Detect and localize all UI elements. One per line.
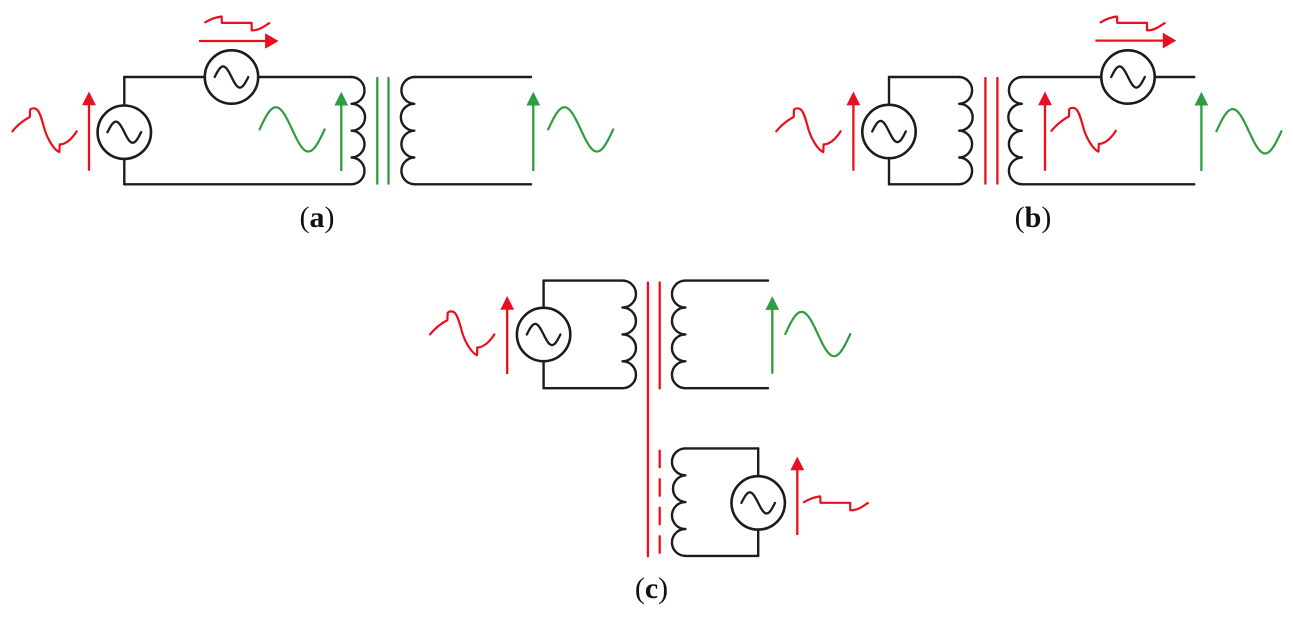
green voltage arrow at load [1195,92,1209,171]
wire secondary bottom [1022,183,1195,185]
wire top right segment to primary [258,76,351,78]
circuit (c) red distorted voltage waveform at source [430,311,494,355]
wire U6 bottom lead [757,530,759,556]
green sinusoidal waveform at primary [260,107,325,151]
transformer core line 1 (red) [984,78,986,184]
secondary winding L2 [401,77,414,184]
harmonic source U6 [732,476,785,529]
wire tertiary bottom [685,555,758,557]
wire tertiary top [685,447,758,449]
wire secondary bottom [414,183,531,185]
secondary winding L4 [1008,77,1021,184]
circuit (c) red voltage arrow at source [500,296,514,374]
svg-text:(c): (c) [635,572,668,605]
wire U5 top lead [542,281,544,308]
red distorted current waveform at tertiary [804,496,868,510]
wire U5 bottom lead [542,361,544,388]
wire U1 top lead [123,77,125,106]
primary winding L5 [623,281,636,389]
transformer core line 2 (green) [387,78,389,184]
voltage source U1 [98,106,151,159]
wire U1 bottom lead [123,159,125,184]
red current direction arrow I2 [1095,33,1176,49]
wire secondary top right segment [1155,76,1195,78]
wire U6 top lead [757,448,759,476]
wire bottom of primary loop [124,183,351,185]
primary winding L1 [352,77,365,184]
circuit (a) red voltage arrow V1 [82,92,96,171]
svg-text:(b): (b) [1015,201,1052,234]
primary winding L3 [959,77,972,184]
svg-text:(a): (a) [300,201,335,234]
red distorted waveform at secondary [1052,108,1116,152]
circuit (b) red voltage arrow at source [847,92,861,171]
harmonic source U4 [1101,50,1154,103]
wire secondary top left segment [1022,76,1102,78]
wire secondary top [685,279,768,281]
dashed red core line at tertiary [659,451,661,553]
transformer core line 1 (green) [376,78,378,184]
circuit (b) red distorted voltage waveform at source [776,108,840,152]
wire U3 bottom lead [888,158,890,184]
wire secondary bottom [685,387,768,389]
wire secondary top [414,76,531,78]
green sinusoidal waveform at secondary [785,312,850,356]
secondary winding L6 [672,281,685,389]
voltage source U5 [517,308,570,361]
harmonic source U2 [205,50,258,103]
voltage source U3 [862,105,915,158]
wire primary loop bottom [889,183,959,185]
wire primary loop bottom [544,387,623,389]
red distorted current waveform above U4 [1101,17,1165,31]
tertiary winding L7 [672,448,685,556]
green voltage arrow at secondary [526,92,540,171]
transformer core line 2 (red) [996,78,998,184]
wire primary loop top [889,76,959,78]
circuit (a) red distorted voltage waveform at source [12,108,76,152]
red voltage arrow at secondary [1038,92,1052,171]
wire primary loop top [544,279,623,281]
transformer core line long (red) [647,283,649,557]
red voltage arrow at tertiary [790,457,804,535]
wire U3 top lead [888,77,890,105]
green sinusoidal waveform at load [1216,109,1281,153]
red distorted current waveform above U2 [205,17,269,31]
wire top left segment [124,76,205,78]
green voltage arrow at secondary [765,296,779,374]
green sinusoidal waveform at secondary [548,107,613,151]
red current direction arrow I1 [199,33,279,49]
green voltage arrow at primary winding [334,92,348,171]
transformer core line short (red) [659,283,661,389]
